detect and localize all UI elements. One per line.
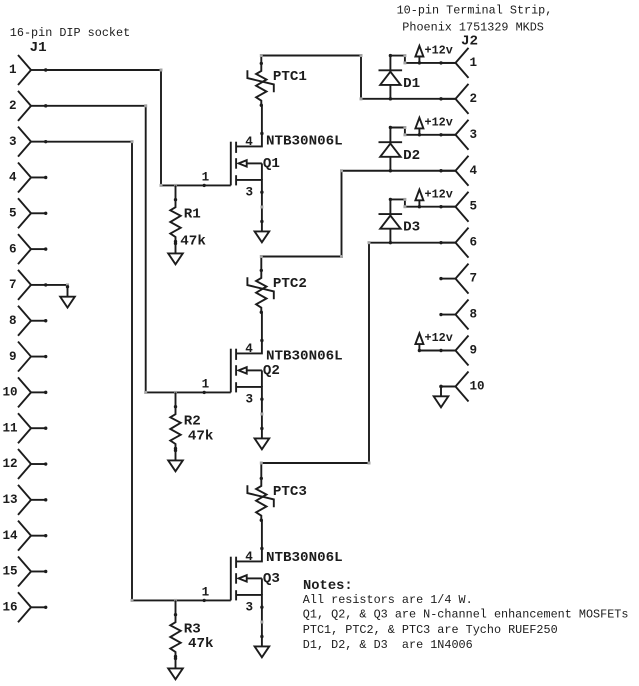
junction corner PTC3 c: [368, 241, 371, 244]
connector J1 pin 3: [9, 127, 47, 157]
svg-text:1: 1: [470, 56, 478, 70]
connector J1 pin 16: [3, 592, 48, 622]
junction R3 top: [174, 599, 177, 602]
svg-text:9: 9: [470, 344, 478, 358]
connector J1 pin 9: [9, 342, 47, 372]
svg-text:16: 16: [3, 601, 18, 615]
pin 4 label Q1: [245, 135, 253, 149]
gate pin dot Q1: [203, 184, 206, 187]
junction D1 anode: [389, 97, 392, 100]
junction corner PTC3 a: [260, 462, 263, 465]
svg-text:10: 10: [3, 386, 18, 400]
svg-text:8: 8: [9, 314, 17, 328]
notes heading: [303, 579, 353, 594]
connector J1 pin 6: [9, 234, 47, 264]
transistor Q2 NTB30N06L: [231, 339, 264, 401]
junction corner D1 step a: [403, 54, 406, 57]
wire Q3 source to ground: [260, 607, 263, 636]
svg-text:3: 3: [246, 185, 254, 199]
pin 1 label Q2: [202, 378, 210, 392]
junction corner D3 step b: [403, 205, 406, 208]
junction corner J1-1 b: [160, 184, 163, 187]
label Q2: [263, 363, 280, 379]
wire J1-2 to Q2 gate node: [46, 106, 231, 393]
label NTB30N06L Q1: [266, 134, 343, 150]
pin 3 label Q3: [246, 600, 254, 614]
connector J1 pin 1: [9, 55, 47, 85]
connector J1 pin 13: [3, 485, 48, 515]
wire R2 bottom: [175, 449, 177, 451]
svg-text:R1: R1: [184, 207, 201, 223]
svg-text:PTC3: PTC3: [273, 484, 307, 500]
svg-text:2: 2: [9, 99, 17, 113]
wire PTC1 top to J2-2: [261, 56, 455, 99]
svg-text:7: 7: [9, 278, 17, 292]
junction corner D3 step a: [403, 198, 406, 201]
connector J1 pin 12: [3, 449, 48, 479]
pin 4 label Q2: [245, 342, 253, 356]
connector J2 pin 6: [439, 228, 477, 258]
pin 1 label Q3: [202, 586, 210, 600]
power +12v arrow row J2-1: [415, 46, 423, 65]
connector J2 pin 10: [439, 371, 484, 401]
label D1: [403, 76, 420, 92]
svg-text:NTB30N06L: NTB30N06L: [266, 348, 343, 364]
svg-text:4: 4: [470, 164, 478, 178]
svg-text:D1: D1: [403, 76, 420, 92]
label J2: [461, 33, 478, 49]
svg-text:D1, D2, & D3 are 1N4006: D1, D2, & D3 are 1N4006: [303, 638, 473, 652]
junction corner D1 step b: [403, 61, 406, 64]
junction corner PTC3 b: [368, 462, 371, 465]
svg-text:PTC2: PTC2: [273, 276, 307, 292]
svg-text:10: 10: [470, 379, 485, 393]
junction corner D2 step b: [403, 133, 406, 136]
svg-text:2: 2: [470, 92, 478, 106]
title 16-pin DIP socket: [10, 26, 130, 40]
pin 1 label Q1: [202, 171, 210, 185]
wire J1-7 to ground: [46, 283, 69, 286]
svg-text:1: 1: [9, 63, 17, 77]
svg-text:Q3: Q3: [263, 571, 280, 587]
transistor Q3 NTB30N06L: [231, 547, 264, 609]
pin 3 label Q2: [246, 392, 254, 406]
svg-text:8: 8: [470, 308, 478, 322]
junction corner J1-2 a: [144, 104, 147, 107]
svg-text:1: 1: [202, 378, 210, 392]
value 47k R3: [188, 636, 214, 652]
label NTB30N06L Q3: [266, 550, 343, 566]
svg-text:J1: J1: [30, 40, 47, 56]
connector J1 pin 2: [9, 91, 47, 121]
connector J1 pin 11: [3, 413, 48, 443]
svg-text:3: 3: [9, 135, 17, 149]
svg-text:D2: D2: [403, 148, 420, 164]
PTC thermistor PTC1: [247, 62, 273, 107]
connector J2 pin 9: [439, 336, 477, 366]
svg-text:6: 6: [470, 236, 478, 250]
label D2: [403, 148, 420, 164]
svg-text:Q1, Q2, & Q3 are N-channel enh: Q1, Q2, & Q3 are N-channel enhancement M…: [303, 608, 629, 622]
wire Q1 source to ground: [260, 192, 263, 221]
svg-text:47k: 47k: [188, 428, 214, 444]
wire R3 bottom: [175, 657, 177, 659]
svg-text:+12v: +12v: [425, 115, 453, 129]
title 10-pin Terminal Strip: [397, 3, 553, 17]
label +12v row J2-3: [425, 115, 453, 129]
resistor R2: [170, 405, 180, 450]
connector J2 pin 8: [439, 300, 477, 330]
junction R2 top: [174, 391, 177, 394]
power +12v arrow J2-9: [415, 333, 423, 352]
ground at Q1 source: [255, 220, 270, 243]
label PTC1: [273, 69, 307, 85]
connector J2 pin 7: [439, 264, 477, 294]
svg-text:PTC1: PTC1: [273, 69, 307, 85]
svg-text:R2: R2: [184, 414, 201, 430]
svg-text:7: 7: [470, 272, 478, 286]
label Q1: [263, 156, 280, 172]
junction corner J1-1 a: [160, 69, 163, 72]
ground at J2-10: [434, 385, 449, 408]
svg-text:PTC1, PTC2, & PTC3 are Tycho R: PTC1, PTC2, & PTC3 are Tycho RUEF250: [303, 623, 558, 637]
wire J2-10 to ground: [441, 385, 456, 387]
wire PTC1 to Q1 drain: [261, 105, 263, 133]
PTC thermistor PTC3: [247, 477, 273, 522]
svg-text:5: 5: [9, 206, 17, 220]
wire +12v row J2-5: [390, 199, 455, 206]
connector J1 pin 4: [9, 162, 47, 192]
svg-text:15: 15: [3, 565, 18, 579]
junction D2 anode: [389, 169, 392, 172]
gate pin dot Q3: [203, 599, 206, 602]
svg-text:5: 5: [470, 200, 478, 214]
svg-text:11: 11: [3, 421, 19, 435]
junction corner D2 step a: [403, 126, 406, 129]
gate pin dot Q2: [203, 391, 206, 394]
junction corner PTC1 b: [360, 54, 363, 57]
resistor R1: [170, 198, 180, 243]
connector J1 pin 7: [9, 270, 47, 300]
svg-text:+12v: +12v: [425, 331, 453, 345]
svg-text:Q1: Q1: [263, 156, 280, 172]
connector J1 pin 14: [3, 521, 48, 551]
wire PTC2 to Q2 drain: [261, 312, 263, 340]
label R1: [184, 207, 201, 223]
svg-text:12: 12: [3, 457, 18, 471]
svg-text:1: 1: [202, 586, 210, 600]
svg-text:NTB30N06L: NTB30N06L: [266, 134, 343, 150]
wire PTC3 top to J2-6: [261, 243, 455, 479]
svg-text:+12v: +12v: [425, 187, 453, 201]
note line 3: [303, 623, 558, 637]
svg-text:6: 6: [9, 242, 17, 256]
value 47k R2: [188, 428, 214, 444]
junction corner PTC2 c: [340, 169, 343, 172]
connector J1 pin 15: [3, 556, 48, 586]
junction R1 top: [174, 184, 177, 187]
connector J1 pin 10: [3, 377, 48, 407]
junction corner PTC2 a: [260, 255, 263, 258]
transistor Q1 NTB30N06L: [231, 132, 264, 194]
wire J1-1 to Q1 gate node: [46, 70, 231, 185]
wire PTC3 to Q3 drain: [261, 520, 263, 548]
label NTB30N06L Q2: [266, 348, 343, 364]
pin 3 label Q1: [246, 185, 254, 199]
wire R3 top: [175, 600, 177, 614]
wire J1-3 to Q3 gate node: [46, 142, 231, 601]
label +12v row J2-1: [425, 44, 453, 58]
wire +12v row J2-3: [390, 128, 455, 135]
label J1: [30, 40, 47, 56]
connector J2 pin 3: [439, 120, 477, 150]
junction corner PTC1 c: [360, 97, 363, 100]
note line 2: [303, 608, 629, 622]
wire J2-9 to +12v: [419, 350, 455, 352]
junction corner J1-3 a: [131, 140, 134, 143]
svg-text:9: 9: [9, 350, 17, 364]
svg-text:Notes:: Notes:: [303, 579, 353, 594]
label D3: [403, 220, 420, 236]
svg-text:47k: 47k: [188, 636, 214, 652]
PTC thermistor PTC2: [247, 269, 273, 314]
ground at Q3 source: [255, 635, 270, 658]
junction corner J1-3 b: [131, 599, 134, 602]
connector J2 pin 4: [439, 156, 477, 186]
label R3: [184, 622, 201, 638]
note line 1: [303, 593, 473, 607]
title Phoenix 1751329 MKDS: [402, 20, 544, 34]
connector J2 pin 1: [439, 48, 477, 78]
label PTC2: [273, 276, 307, 292]
svg-text:J2: J2: [461, 33, 478, 49]
svg-text:3: 3: [246, 600, 254, 614]
ground at R1: [168, 242, 183, 264]
power +12v arrow row J2-3: [415, 118, 423, 137]
svg-text:All resistors are 1/4 W.: All resistors are 1/4 W.: [303, 593, 473, 607]
wire R1 bottom: [175, 242, 177, 244]
junction corner PTC2 b: [340, 255, 343, 258]
ground at Q2 source: [255, 427, 270, 450]
svg-text:47k: 47k: [180, 234, 206, 250]
connector J2 pin 2: [439, 84, 477, 114]
svg-text:D3: D3: [403, 220, 420, 236]
wire PTC2 top to J2-4: [261, 171, 455, 271]
connector J1 pin 5: [9, 198, 47, 228]
label PTC3: [273, 484, 307, 500]
diode D3: [379, 198, 403, 243]
wire Q2 source to ground: [260, 399, 263, 428]
svg-text:+12v: +12v: [425, 44, 453, 58]
pin 4 label Q3: [245, 550, 253, 564]
svg-text:3: 3: [246, 392, 254, 406]
junction corner PTC1 a: [260, 54, 263, 57]
svg-text:4: 4: [245, 550, 253, 564]
svg-text:4: 4: [245, 135, 253, 149]
connector J2 pin 5: [439, 192, 477, 222]
ground at R3: [168, 657, 183, 680]
svg-text:10-pin Terminal Strip,: 10-pin Terminal Strip,: [397, 3, 553, 17]
diode D2: [379, 126, 403, 171]
diode D1: [379, 54, 403, 99]
note line 4: [303, 638, 473, 652]
label R2: [184, 414, 201, 430]
junction corner J1-2 b: [144, 391, 147, 394]
svg-text:Phoenix 1751329 MKDS: Phoenix 1751329 MKDS: [402, 20, 544, 34]
svg-text:3: 3: [470, 128, 478, 142]
ground at J1-7: [60, 285, 75, 308]
label +12v row J2-5: [425, 187, 453, 201]
resistor R3: [170, 613, 180, 658]
svg-text:1: 1: [202, 171, 210, 185]
wire R2 top: [175, 392, 177, 406]
svg-text:13: 13: [3, 493, 18, 507]
wire +12v row J2-1: [390, 56, 455, 63]
svg-text:Q2: Q2: [263, 363, 280, 379]
connector J1 pin 8: [9, 306, 47, 336]
svg-text:16-pin DIP socket: 16-pin DIP socket: [10, 26, 130, 40]
svg-text:14: 14: [3, 529, 19, 543]
label Q3: [263, 571, 280, 587]
wire R1 top: [175, 185, 177, 199]
value 47k R1: [180, 234, 206, 250]
ground at R2: [168, 449, 183, 472]
junction D3 anode: [389, 241, 392, 244]
power +12v arrow row J2-5: [415, 190, 423, 209]
svg-text:NTB30N06L: NTB30N06L: [266, 550, 343, 566]
label +12v J2-9: [425, 331, 453, 345]
svg-text:4: 4: [9, 171, 17, 185]
svg-text:4: 4: [245, 342, 253, 356]
